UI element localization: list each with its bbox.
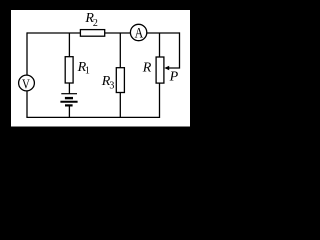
svg-text:P: P	[169, 69, 179, 84]
svg-text:R: R	[142, 61, 152, 76]
wire: rheostat branch	[159, 33, 161, 118]
rheostat R (box)	[156, 57, 164, 83]
svg-text:V: V	[22, 76, 30, 91]
svg-text:A: A	[135, 25, 144, 41]
battery (two cells)	[60, 94, 77, 106]
svg-text:3: 3	[109, 80, 114, 91]
white drawing area	[11, 10, 190, 127]
wire: R1/battery branch upper	[68, 33, 70, 94]
black background	[0, 0, 202, 138]
voltmeter V (circle)	[19, 75, 35, 91]
wire: right branch down to slider arrow	[166, 32, 180, 68]
ammeter A (circle)	[130, 24, 146, 40]
wire: bottom horizontal	[26, 116, 159, 118]
wire: top horizontal	[27, 32, 180, 34]
wire: R1/battery branch lower	[68, 105, 70, 118]
wire: R3 branch	[119, 33, 121, 117]
resistor R1 (box)	[65, 57, 73, 83]
resistor R2 (box)	[80, 30, 104, 37]
svg-text:1: 1	[85, 65, 90, 76]
wire: left vertical through voltmeter	[26, 32, 28, 117]
slider arrowhead P	[164, 66, 169, 70]
svg-text:2: 2	[93, 18, 98, 29]
resistor R3 (box)	[116, 68, 124, 93]
